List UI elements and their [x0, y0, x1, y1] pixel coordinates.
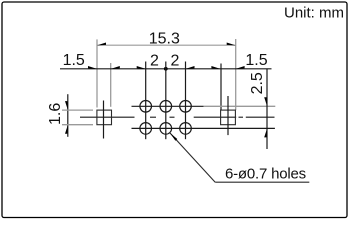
- svg-text:1.6: 1.6: [47, 103, 64, 125]
- hole A2: [160, 101, 172, 113]
- dot between 2 and 2: [164, 67, 168, 71]
- hole column line 2: [165, 62, 167, 140]
- hole column line 1: [145, 62, 147, 140]
- main dimension line: [60, 68, 272, 70]
- extension line right (x=235.7): [235, 39, 237, 110]
- svg-text:2: 2: [170, 52, 179, 69]
- hole A1: [140, 101, 152, 113]
- svg-text:Unit: mm: Unit: mm: [284, 4, 344, 21]
- row line 1 black: [132, 105, 204, 107]
- dimension line 1.6 vertical: [67, 94, 69, 137]
- arrow 1.6 top: [65, 101, 68, 110]
- svg-text:15.3: 15.3: [149, 30, 180, 47]
- dimension line 2.5 vertical: [266, 69, 268, 149]
- leader arrowhead: [170, 133, 177, 141]
- arrow 15.3 right: [227, 43, 236, 46]
- svg-text:1.5: 1.5: [63, 52, 85, 69]
- arrow 2 left: [137, 66, 146, 69]
- arrow 1.5R left: [211, 66, 220, 69]
- arrow 15.3 left: [97, 43, 106, 46]
- center axis chain line: [80, 116, 275, 118]
- left square center line: [103, 101, 105, 139]
- extension line right-inner black (x=221): [220, 64, 222, 111]
- extension line left (x=97): [96, 39, 98, 107]
- arrow 2.5 bottom: [264, 128, 267, 137]
- arrow 1.6 bottom: [65, 125, 68, 134]
- hole column line 3: [185, 62, 187, 140]
- left square pad: [97, 110, 112, 125]
- svg-text:1.5: 1.5: [245, 52, 267, 69]
- extension line left-inner (x=110.7): [110, 63, 112, 107]
- arrow 2.5 top: [264, 97, 267, 106]
- arrow 1.5R right: [236, 66, 245, 69]
- dimension line 15.3: [97, 44, 236, 46]
- svg-text:2: 2: [150, 52, 159, 69]
- arrow 2 right: [186, 66, 195, 69]
- right square center line: [227, 96, 229, 135]
- arrow 1.5L right: [111, 66, 120, 69]
- hole B1: [140, 123, 152, 135]
- hole B3: [180, 123, 192, 135]
- right square pad: [221, 110, 236, 125]
- leader line diagonal: [170, 133, 215, 182]
- svg-text:2.5: 2.5: [249, 72, 266, 94]
- svg-text:6-ø0.7 holes: 6-ø0.7 holes: [225, 165, 306, 182]
- hole B2: [160, 123, 172, 135]
- leader underline: [215, 181, 309, 183]
- hole A3: [180, 101, 192, 113]
- extension line 1.6 top: [62, 109, 93, 111]
- row line 1 gray extension: [204, 105, 276, 107]
- extension line 1.6 bottom: [62, 124, 93, 126]
- row line 2 black: [132, 127, 275, 129]
- arrow 1.5L left: [88, 66, 97, 69]
